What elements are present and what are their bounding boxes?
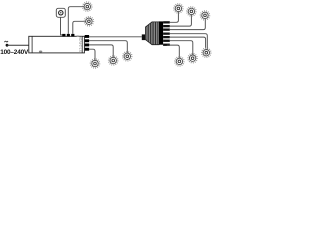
svg-text:100–240V: 100–240V <box>0 49 29 56</box>
svg-text:ST-24VDC: ST-24VDC <box>78 35 82 52</box>
